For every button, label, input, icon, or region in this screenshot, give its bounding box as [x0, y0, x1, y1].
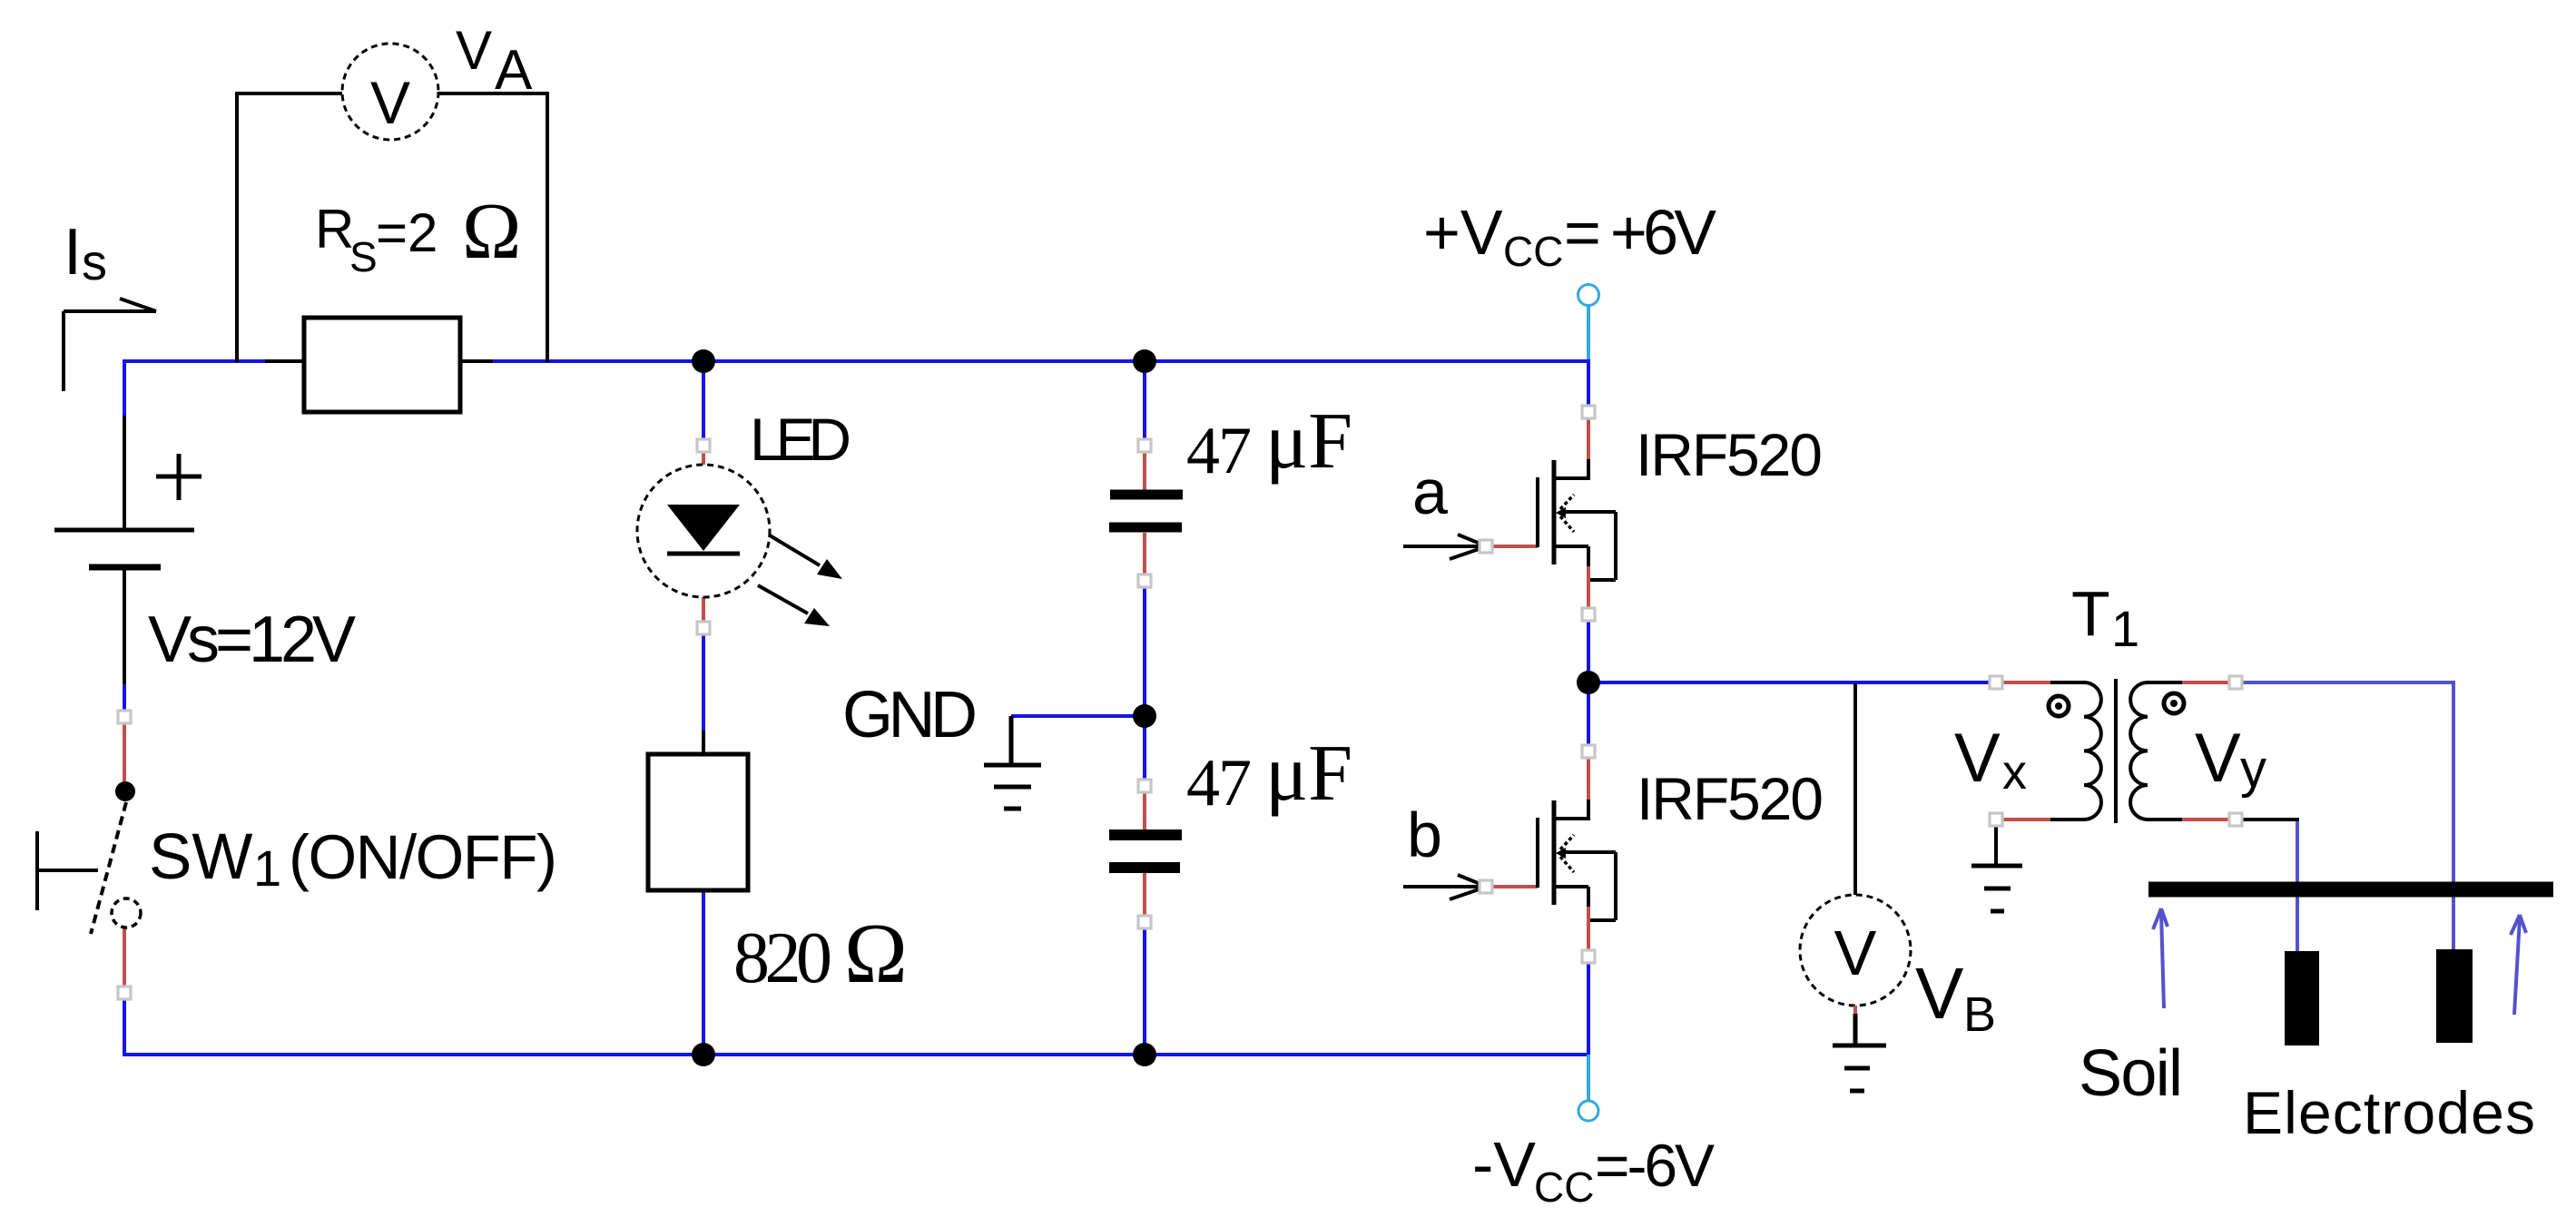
wire: GND stub wire: [1011, 714, 1145, 718]
svg-text:= +6V: = +6V: [1564, 197, 1716, 268]
battery VS plates: [54, 528, 194, 533]
svg-text:V: V: [1915, 953, 1964, 1034]
-Vcc terminal: [1587, 1055, 1590, 1101]
resistor RS: [304, 318, 460, 412]
wire: black lead from battery - plate: [123, 569, 126, 684]
wire: secondary bottom to electrode 1: [2241, 820, 2297, 951]
svg-text:LED: LED: [750, 406, 851, 473]
wire: red pin stubs of T1 secondary: [2182, 682, 2229, 820]
svg-text:s: s: [82, 233, 107, 290]
wire: lower MOSFET source to bottom rail: [1587, 961, 1590, 1055]
svg-text:1: 1: [2111, 600, 2139, 657]
wire: secondary top to electrode 2: [2241, 682, 2453, 949]
svg-text:V: V: [2195, 720, 2241, 797]
wire: +Vcc drop to upper MOSFET drain: [1587, 359, 1590, 407]
LED triangle: [667, 505, 740, 551]
svg-text:SW: SW: [149, 821, 252, 893]
wire: red pin stubs of capacitor C1: [1143, 450, 1146, 577]
battery plus sign: [156, 454, 202, 500]
wire: red pin stub below switch: [123, 928, 126, 987]
svg-text:Ω: Ω: [462, 188, 521, 276]
Is arrow: [64, 299, 156, 391]
capacitor C2 plates: [1109, 829, 1182, 840]
node: junction bottom rail / LED branch: [692, 1043, 715, 1066]
svg-text:S: S: [349, 233, 378, 280]
LED emission arrow 2: [758, 585, 808, 613]
wire: switch bottom blue stub: [123, 1000, 1590, 1056]
svg-text:=-6V: =-6V: [1595, 1132, 1715, 1199]
transistor Q1 IRF520 (upper): [1538, 459, 1616, 580]
gate input a arrow: [1403, 535, 1487, 559]
LED cathode bar: [667, 552, 740, 556]
svg-text:-V: -V: [1472, 1129, 1536, 1200]
svg-text:=2: =2: [376, 202, 438, 263]
svg-text:47: 47: [1186, 414, 1252, 488]
svg-text:μF: μF: [1265, 730, 1352, 818]
wire: mid junction to lower MOSFET drain: [1587, 682, 1590, 746]
node: junction MOSFET half-bridge output: [1577, 671, 1600, 694]
soil arrow left: [2153, 908, 2168, 1008]
LED emission arrow 1: [770, 535, 820, 565]
svg-text:A: A: [495, 39, 533, 102]
svg-text:CC: CC: [1534, 1163, 1594, 1211]
svg-text:V: V: [370, 69, 410, 136]
wire: red pin stub above switch: [123, 723, 126, 784]
svg-text:IRF520: IRF520: [1637, 765, 1824, 832]
wire: red gate stub of Q2: [1491, 885, 1538, 888]
svg-text:(ON/OFF): (ON/OFF): [289, 822, 557, 892]
svg-text:b: b: [1407, 800, 1442, 870]
svg-text:R: R: [315, 199, 354, 260]
svg-text:μF: μF: [1265, 398, 1352, 486]
electrode 2: [2436, 949, 2473, 1043]
svg-text:IRF520: IRF520: [1636, 421, 1823, 488]
svg-text:Vs=12V: Vs=12V: [148, 604, 356, 676]
svg-text:B: B: [1963, 987, 1996, 1042]
node: junction bottom rail / capacitor branch: [1133, 1043, 1156, 1066]
voltmeter VA circle: [342, 44, 438, 140]
svg-text:1: 1: [253, 839, 281, 897]
electrode 1: [2285, 951, 2319, 1045]
voltmeter VB circle: [1800, 895, 1911, 1006]
ground below VB: [1833, 1014, 1886, 1091]
wire: LED branch blue segments: [702, 361, 705, 1055]
wire: left drop from top rail to battery: [123, 359, 126, 417]
svg-text:Soil: Soil: [2079, 1037, 2183, 1110]
svg-text:47: 47: [1186, 746, 1252, 820]
node: junction GND / capacitor midpoint: [1133, 704, 1156, 728]
wire: main top rail: [123, 359, 1991, 1056]
resistor 820: [648, 754, 748, 890]
svg-text:V: V: [456, 20, 492, 81]
ground below primary: [1971, 866, 2022, 911]
wire: red pin stubs of T1 primary: [2002, 682, 2050, 820]
switch SW1 node dot: [115, 781, 135, 801]
svg-text:x: x: [2002, 745, 2027, 800]
node: junction top rail / capacitor branch: [1133, 349, 1156, 373]
wire: red drain stub of Q2: [1587, 757, 1590, 800]
soil arrow right: [2511, 915, 2526, 1015]
gate input b arrow: [1403, 875, 1487, 899]
transformer T1 secondary winding: [2130, 682, 2182, 820]
T1 secondary phase dot: [2164, 693, 2184, 713]
T1 primary phase dot: [2049, 696, 2069, 716]
switch SW1 open contact circle: [112, 898, 141, 928]
switch SW1 lever: [91, 802, 126, 934]
ground symbol (GND net): [984, 716, 1041, 809]
transformer T1 primary winding: [2050, 682, 2101, 820]
VB red stub: [1853, 1006, 1857, 1014]
svg-text:I: I: [64, 216, 82, 289]
wire: capacitor branch blue segments: [1143, 361, 1146, 1055]
transformer T1 core: [2114, 679, 2118, 823]
wire: black lead into battery + plate: [123, 416, 126, 530]
svg-text:+V: +V: [1423, 197, 1503, 268]
svg-text:Ω: Ω: [844, 907, 908, 1001]
wire: red drain stub of Q1: [1587, 417, 1590, 459]
soil bar: [2148, 882, 2553, 898]
svg-text:Electrodes: Electrodes: [2243, 1079, 2535, 1146]
svg-text:a: a: [1412, 456, 1448, 527]
wire: red source stub of Q2: [1587, 906, 1590, 951]
capacitor C1 plates: [1110, 490, 1183, 500]
switch SW1 left contact: [37, 831, 98, 910]
wire: primary bottom to ground: [1994, 825, 1998, 864]
transistor Q2 IRF520 (lower): [1538, 800, 1616, 920]
wire: red source stub of Q1: [1587, 565, 1590, 610]
node: junction top rail / LED branch: [692, 349, 715, 373]
svg-text:V: V: [1954, 720, 2001, 797]
svg-text:GND: GND: [842, 679, 978, 751]
wire: upper MOSFET source to mid junction: [1587, 619, 1590, 682]
+Vcc terminal: [1578, 285, 1599, 306]
wire: red pin stubs of LED: [702, 451, 705, 622]
svg-text:V: V: [1834, 918, 1877, 988]
wire: mid junction to transformer primary: [1588, 681, 1991, 684]
voltmeter VA loop: [237, 93, 547, 362]
terminal squares: [118, 406, 2242, 999]
wire: battery bottom blue stub: [123, 683, 126, 712]
wire: red pin stubs of capacitor C2: [1143, 791, 1146, 917]
svg-text:y: y: [2240, 740, 2266, 799]
svg-text:820: 820: [733, 918, 832, 998]
voltmeter VB branch wire: [1853, 682, 1857, 895]
wire: red gate stub of Q1: [1491, 545, 1538, 548]
LED circle: [637, 465, 770, 597]
svg-text:T: T: [2071, 578, 2110, 649]
svg-text:CC: CC: [1503, 228, 1563, 275]
